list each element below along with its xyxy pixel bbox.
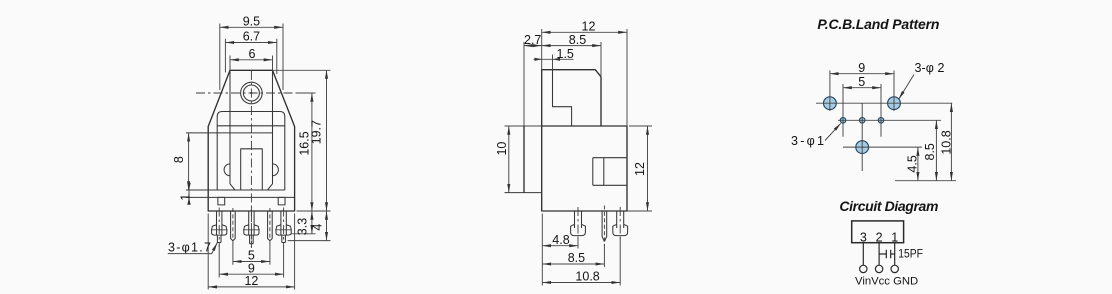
svg-text:4.8: 4.8	[552, 233, 569, 247]
connector body box	[852, 221, 904, 243]
terminal Vcc	[875, 265, 882, 272]
front view dimensions	[168, 14, 331, 289]
dim 6	[230, 47, 273, 70]
flat pin F2	[268, 208, 273, 246]
base reference line	[895, 180, 956, 182]
shell side walls / cavity walls	[230, 70, 273, 190]
face bottom line + ext to left	[186, 189, 285, 191]
left foot boss	[218, 197, 225, 205]
dim 1.5	[534, 47, 574, 70]
center pin hole inner circle	[243, 85, 259, 101]
svg-text:1: 1	[178, 194, 192, 201]
horizontal centerline	[196, 92, 308, 94]
svg-text:3-φ1.7: 3-φ1.7	[168, 241, 211, 255]
svg-text:2.7: 2.7	[524, 33, 541, 47]
flange bottom + ext	[505, 192, 542, 194]
front flange edge-on plate	[523, 126, 525, 193]
terminal GND	[891, 265, 898, 272]
svg-text:4.5: 4.5	[906, 155, 920, 172]
svg-text:8.5: 8.5	[569, 33, 586, 47]
center slot	[241, 149, 263, 190]
svg-text:8.5: 8.5	[923, 143, 937, 160]
side view dimensions	[495, 20, 652, 286]
svg-text:6: 6	[249, 47, 256, 61]
center pin hole outer circle	[241, 82, 263, 104]
dim 1	[178, 183, 192, 205]
vertical centerline	[250, 71, 252, 248]
side view pins	[571, 206, 628, 247]
left contact bump	[224, 164, 230, 176]
face inner line	[217, 125, 285, 127]
dim 16.5	[296, 93, 316, 211]
dim 19.7	[273, 70, 331, 211]
svg-text:8: 8	[172, 156, 186, 163]
dim 9.5	[220, 14, 283, 90]
wire pin2	[878, 243, 880, 266]
round pin P3 (right)	[275, 208, 292, 248]
dim 12 right	[627, 126, 652, 211]
svg-text:12: 12	[582, 20, 596, 34]
label 3-phi1 with leader	[791, 123, 841, 148]
dim 6.7	[225, 30, 276, 74]
wire pin3	[862, 243, 864, 266]
capacitor C1 15PF between pin2 and pin1	[879, 250, 895, 258]
cavity top line + ext to left	[186, 132, 273, 134]
jack body outline (trapezoid shell + sides + bottom flange)	[208, 70, 294, 211]
svg-text:3-φ1: 3-φ1	[791, 134, 824, 148]
side flat center pin	[602, 206, 607, 247]
dim 8	[172, 133, 189, 190]
svg-text:15PF: 15PF	[898, 249, 923, 261]
hole center dot	[250, 92, 252, 94]
svg-text:VinVcc GND: VinVcc GND	[855, 275, 918, 287]
dim 4	[288, 211, 331, 241]
svg-text:9.5: 9.5	[243, 14, 260, 28]
dim 2.7	[524, 33, 542, 126]
big pad right	[888, 97, 901, 110]
svg-text:5: 5	[858, 75, 865, 89]
wire pin1	[894, 243, 896, 266]
svg-text:1.5: 1.5	[557, 47, 574, 61]
big pad left	[824, 97, 837, 110]
svg-text:9: 9	[858, 61, 865, 75]
svg-text:Circuit Diagram: Circuit Diagram	[839, 198, 938, 214]
vertical construction lines	[830, 71, 894, 172]
dim 9	[219, 245, 283, 278]
dim 5 pads	[843, 75, 881, 89]
side round pin A	[571, 207, 586, 239]
small pad right	[878, 118, 884, 124]
dim 3.3	[291, 211, 316, 235]
dim 8.5 bottom	[542, 244, 604, 267]
flat pin F1	[231, 208, 236, 246]
svg-text:19.7: 19.7	[310, 120, 324, 144]
right foot boss	[278, 197, 285, 205]
right contact bump	[273, 164, 279, 176]
svg-text:10.8: 10.8	[940, 130, 954, 154]
dim 4.8	[542, 214, 578, 286]
main body rect	[542, 126, 627, 211]
front face plate rounded rect	[217, 112, 285, 191]
svg-text:10: 10	[495, 142, 509, 156]
svg-text:12: 12	[633, 162, 647, 176]
small pad mid	[859, 118, 865, 124]
shield top tab	[542, 70, 601, 126]
flange inner line + ext to left	[186, 196, 295, 198]
svg-text:12: 12	[244, 274, 258, 288]
dim 12 top	[542, 20, 627, 127]
svg-text:3.3: 3.3	[296, 218, 310, 235]
big pad bottom	[856, 141, 869, 154]
round pin P2 (center)	[243, 208, 260, 248]
dim 8.5 top	[542, 33, 601, 77]
side round pin B	[613, 207, 628, 239]
round pin P1 (left)	[211, 208, 228, 248]
small pad left	[840, 118, 846, 124]
dim 4.5	[906, 147, 920, 181]
pad row line	[816, 102, 952, 104]
side notch window	[593, 158, 627, 186]
svg-text:6.7: 6.7	[243, 30, 260, 44]
svg-text:3-φ 2: 3-φ 2	[915, 61, 945, 75]
front view pins	[211, 208, 292, 248]
small pad row line	[838, 119, 941, 121]
top line across flange + ext	[505, 125, 542, 127]
dim 10.8	[542, 238, 620, 286]
label 3-phi1.7 with leader	[168, 241, 218, 255]
dim 10.8 pads	[940, 103, 954, 181]
dim 5	[233, 244, 270, 265]
svg-text:2: 2	[876, 231, 883, 245]
svg-text:3: 3	[860, 231, 867, 245]
dim 10	[495, 126, 509, 193]
svg-text:8.5: 8.5	[568, 251, 585, 265]
svg-text:1: 1	[891, 231, 898, 245]
label 3-phi2 with leader	[899, 61, 945, 99]
dim 9 pads	[830, 61, 894, 75]
svg-text:4: 4	[310, 224, 324, 231]
terminal Vin	[860, 265, 867, 272]
svg-text:P.C.B.Land Pattern: P.C.B.Land Pattern	[817, 16, 939, 32]
svg-text:10.8: 10.8	[575, 270, 599, 284]
dim 8.5 pads	[923, 120, 937, 180]
bottom pad line	[843, 146, 922, 148]
tab inner step	[553, 70, 572, 126]
dim 12	[208, 214, 294, 290]
